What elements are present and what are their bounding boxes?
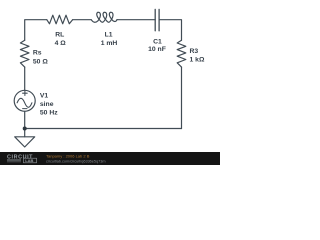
source V1 circle bbox=[14, 90, 35, 111]
wire C1 to top-right corner bbox=[159, 20, 181, 41]
node junction dot bbox=[23, 127, 27, 131]
svg-text:50 Hz: 50 Hz bbox=[40, 109, 58, 116]
svg-text:1 kΩ: 1 kΩ bbox=[190, 56, 205, 63]
capacitor C1 plate left bbox=[154, 9, 156, 30]
wire RL to L1 bbox=[73, 19, 92, 21]
V1 plus sign bbox=[23, 91, 28, 96]
svg-text:L1: L1 bbox=[105, 31, 113, 38]
ground stem bbox=[24, 129, 26, 137]
svg-text:V1: V1 bbox=[40, 93, 49, 100]
wire bottom horizontal bbox=[25, 128, 182, 130]
svg-text:RL: RL bbox=[55, 31, 64, 38]
resistor RL bbox=[47, 15, 73, 24]
wire top-left horizontal bbox=[25, 20, 47, 41]
svg-text:10 nF: 10 nF bbox=[148, 46, 166, 53]
CircuitLab logo lines bbox=[7, 159, 21, 162]
V1 minus sign bbox=[23, 108, 27, 110]
CircuitLab logo LAB box bbox=[24, 158, 37, 163]
ground triangle bbox=[15, 137, 35, 147]
wire V1 to ground node bbox=[24, 111, 26, 128]
wire Rs to V1 bbox=[24, 67, 26, 90]
svg-text:4 Ω: 4 Ω bbox=[55, 40, 67, 47]
resistor Rs bbox=[20, 40, 29, 67]
svg-text:1 mH: 1 mH bbox=[101, 40, 118, 47]
svg-text:sine: sine bbox=[40, 101, 54, 108]
resistor R3 bbox=[177, 40, 186, 67]
V1 sine wave bbox=[17, 98, 32, 107]
svg-text:50 Ω: 50 Ω bbox=[33, 58, 48, 65]
wire L1 to C1 bbox=[117, 19, 155, 21]
svg-text:C1: C1 bbox=[153, 39, 162, 46]
wire right side down bbox=[181, 67, 183, 128]
footer bar bbox=[0, 152, 220, 165]
inductor L1 bbox=[91, 12, 117, 22]
capacitor C1 plate right bbox=[158, 9, 160, 30]
svg-text:Rs: Rs bbox=[33, 50, 42, 57]
svg-text:R3: R3 bbox=[190, 48, 199, 55]
